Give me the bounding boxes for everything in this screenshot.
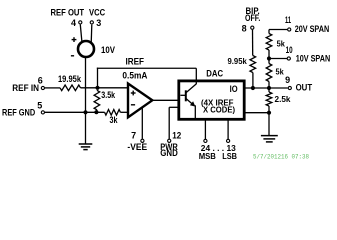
svg-text:10V: 10V bbox=[101, 45, 115, 55]
svg-text:10V SPAN: 10V SPAN bbox=[296, 54, 331, 64]
svg-text:OFF.: OFF. bbox=[245, 13, 260, 23]
svg-text:5k: 5k bbox=[277, 39, 285, 49]
svg-text:9.95k: 9.95k bbox=[228, 56, 248, 66]
svg-text:LSB: LSB bbox=[222, 151, 237, 161]
svg-text:4: 4 bbox=[71, 18, 76, 28]
svg-text:5: 5 bbox=[37, 100, 42, 110]
svg-text:IO: IO bbox=[230, 84, 238, 94]
svg-text:X CODE): X CODE) bbox=[203, 105, 235, 115]
svg-text:0.5mA: 0.5mA bbox=[122, 71, 147, 81]
svg-text:11: 11 bbox=[285, 15, 291, 25]
svg-text:MSB: MSB bbox=[199, 151, 216, 161]
svg-text:OUT: OUT bbox=[296, 82, 313, 92]
svg-text:REF IN: REF IN bbox=[12, 83, 39, 93]
svg-text:20V SPAN: 20V SPAN bbox=[295, 24, 330, 34]
svg-text:5/7/201216 07:38: 5/7/201216 07:38 bbox=[253, 154, 309, 161]
svg-text:12: 12 bbox=[172, 130, 181, 140]
svg-text:3.5k: 3.5k bbox=[101, 90, 116, 100]
svg-text:2.5k: 2.5k bbox=[275, 94, 291, 104]
svg-text:3k: 3k bbox=[110, 115, 119, 125]
svg-text:IREF: IREF bbox=[126, 57, 145, 67]
svg-text:9: 9 bbox=[285, 75, 290, 85]
svg-text:3: 3 bbox=[96, 18, 101, 28]
svg-text:VCC: VCC bbox=[89, 8, 106, 18]
svg-text:DAC: DAC bbox=[206, 68, 223, 78]
svg-text:7: 7 bbox=[131, 130, 136, 140]
svg-text:19.95k: 19.95k bbox=[58, 74, 82, 84]
svg-text:5k: 5k bbox=[276, 67, 284, 77]
svg-text:REF OUT: REF OUT bbox=[51, 8, 85, 18]
svg-text:10: 10 bbox=[286, 45, 293, 55]
svg-text:8: 8 bbox=[242, 24, 247, 34]
svg-text:REF GND: REF GND bbox=[2, 108, 36, 118]
svg-text:-VEE: -VEE bbox=[127, 142, 147, 152]
svg-text:GND: GND bbox=[160, 148, 178, 158]
